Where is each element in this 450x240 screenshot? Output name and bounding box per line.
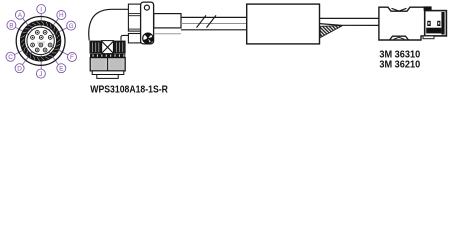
right-angle elbow outer bend <box>89 9 129 40</box>
svg-text:F: F <box>70 54 74 61</box>
pin label D <box>15 64 24 73</box>
leader line I-J vertical <box>40 14 42 70</box>
svg-text:WPS3108A18-1S-R: WPS3108A18-1S-R <box>90 85 168 96</box>
pin label A <box>15 10 24 19</box>
coupling nut right knurl block <box>113 41 125 54</box>
pin 7 <box>39 43 43 47</box>
wire bottom edge (left segment) <box>181 29 247 31</box>
pin label F <box>68 53 77 62</box>
cable break slash 1 <box>197 15 207 27</box>
cable break slash 2 <box>207 15 217 27</box>
pin 3 <box>31 36 35 40</box>
mini connector bottom band <box>426 28 441 34</box>
mini connector foot <box>423 36 434 39</box>
shell front band <box>92 71 124 75</box>
wire top edge (left segment) <box>181 16 247 18</box>
pin 9 <box>35 48 39 52</box>
top polarization chevron <box>392 8 407 11</box>
pin label I <box>37 5 46 14</box>
pin 1 <box>35 31 39 35</box>
pin 5 <box>48 36 52 40</box>
lug pivot hole <box>144 5 149 10</box>
bottom latch chevron <box>394 37 405 39</box>
pin label G <box>67 21 76 30</box>
cable boot (heat shrink) <box>154 14 181 28</box>
wire middle line (left segment) <box>181 23 247 25</box>
mini connector right wall <box>441 12 444 35</box>
pin label E <box>57 64 66 73</box>
mini ribbon connector top tab <box>424 6 432 10</box>
mini connector pin slot right <box>437 21 440 26</box>
molded body (ferrite/adapter box) <box>247 4 320 44</box>
svg-text:G: G <box>69 23 74 30</box>
svg-text:A: A <box>18 12 23 19</box>
cable boot shadow <box>154 33 181 35</box>
elbow housing left column lower block <box>128 34 140 43</box>
pin 4 <box>39 36 43 40</box>
svg-text:C: C <box>8 54 13 61</box>
connector shell (gray) <box>90 58 125 71</box>
coupling nut middle X mark <box>102 41 114 54</box>
connector coupling ring (knurled dark band) <box>22 23 58 59</box>
wire bottom edge (right segment) <box>320 24 379 26</box>
3M connector main body <box>379 7 425 40</box>
connector face outer circle <box>16 17 65 66</box>
leader lines from pin labels to connector face <box>14 18 68 64</box>
svg-text:D: D <box>17 65 22 72</box>
right-angle elbow inner corner <box>121 35 128 40</box>
shell front lip <box>97 75 118 79</box>
elbow housing lug column <box>141 2 154 44</box>
pin 10 <box>43 48 47 52</box>
svg-text:H: H <box>59 12 64 19</box>
pin 2 <box>43 31 47 35</box>
mini connector pin slot left <box>427 21 430 26</box>
svg-text:J: J <box>39 71 42 78</box>
svg-text:3M 36210: 3M 36210 <box>379 60 420 71</box>
mini ribbon connector shell <box>425 11 447 36</box>
strain relief wedge (hatched) <box>320 26 342 38</box>
wire top edge (right segment) <box>320 17 379 19</box>
pin label C <box>6 52 15 61</box>
svg-text:E: E <box>59 65 63 72</box>
coupling nut left knurl block <box>90 41 102 54</box>
clamp screw head <box>143 33 153 44</box>
svg-text:B: B <box>9 22 13 29</box>
elbow housing left column upper block <box>128 4 140 31</box>
pin label B <box>7 21 16 30</box>
pin label H <box>57 11 66 20</box>
bottom latch notch <box>390 36 409 40</box>
connector face inner circle <box>27 27 54 54</box>
pin 6 <box>31 43 35 47</box>
thread band <box>90 54 125 58</box>
svg-text:I: I <box>40 6 42 13</box>
svg-text:18-1S: 18-1S <box>37 40 46 44</box>
pin label J <box>36 69 45 78</box>
pin 8 <box>48 43 52 47</box>
